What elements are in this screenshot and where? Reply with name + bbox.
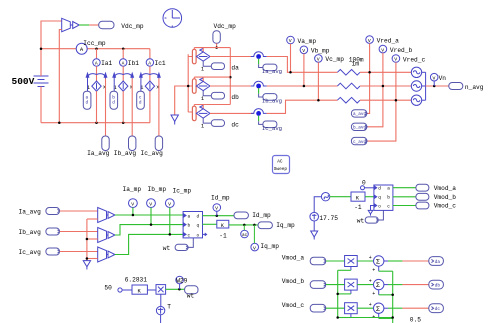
svg-text:V: V — [381, 47, 384, 53]
svg-text:Icc_mp: Icc_mp — [83, 40, 106, 47]
svg-text:Ia_avg: Ia_avg — [262, 68, 282, 75]
resistor Rc — [337, 97, 360, 103]
svg-text:Vmod_c: Vmod_c — [282, 302, 305, 309]
wire Vc_mp — [317, 62, 319, 100]
resistor Rb — [337, 83, 360, 89]
svg-text:A: A — [122, 61, 125, 67]
current source Ic_avg — [251, 109, 267, 116]
svg-text:da: da — [231, 65, 239, 72]
node ac tap — [243, 224, 246, 227]
source diamond dc — [196, 105, 210, 118]
svg-text:a_avg: a_avg — [353, 112, 367, 117]
converter block Ib_avg — [98, 228, 115, 243]
from tag Ic_avg — [46, 248, 60, 255]
svg-text:V: V — [131, 201, 134, 207]
wire U2 out Vmod_c — [393, 205, 416, 207]
svg-text:V: V — [289, 38, 292, 44]
wire source to neutral a — [422, 71, 426, 73]
svg-text:Ib_avg: Ib_avg — [114, 150, 137, 157]
wire green probe Ia_avg — [258, 59, 260, 65]
voltmeter Vred_b — [379, 45, 387, 53]
wire Ic_avg to converter — [60, 251, 98, 253]
wire mult lower input db — [338, 290, 351, 294]
sum db — [374, 279, 384, 290]
from tag Vmod_c — [310, 304, 326, 312]
voltmeter Vn — [430, 73, 438, 86]
node Vred_c — [395, 99, 398, 102]
goto tag n_avg — [449, 83, 463, 90]
gain K1 — [217, 220, 229, 229]
svg-text:Ib_avg: Ib_avg — [262, 98, 282, 105]
constant 50 port — [118, 288, 132, 292]
wire sum lower input db — [379, 290, 393, 295]
multiplier M1 — [156, 285, 166, 295]
converter block Ia_avg — [98, 208, 115, 223]
svg-text:dc: dc — [231, 122, 239, 129]
gain K2 — [351, 192, 365, 202]
svg-text:Vmod_a: Vmod_a — [282, 255, 305, 262]
svg-text:17.75: 17.75 — [319, 215, 338, 222]
wire d output — [203, 215, 235, 217]
current source Ib_avg — [251, 81, 267, 88]
node Vdc tap — [215, 46, 218, 49]
svg-text:n_avg: n_avg — [465, 84, 484, 91]
wire DC+ top — [41, 21, 62, 76]
node return col a — [95, 121, 98, 124]
node Ia_mp — [132, 214, 135, 217]
svg-text:q: q — [197, 224, 200, 229]
wire filter to source a — [360, 71, 411, 73]
goto tag Vmod_c — [416, 202, 429, 209]
port letters U1 — [188, 215, 200, 239]
svg-text:W29: W29 — [176, 278, 187, 285]
svg-text:Id_mp: Id_mp — [252, 212, 271, 219]
wire multiplier to return bus Ib1 — [122, 91, 124, 123]
wire U2 out Vmod_a — [393, 187, 416, 189]
wire to ground — [175, 86, 189, 115]
wire arrow to duty tag db — [113, 79, 115, 92]
svg-text:da: da — [435, 260, 441, 265]
wire mult to sum db — [357, 284, 373, 286]
svg-text:ac: ac — [242, 233, 248, 238]
from tag duty da — [83, 91, 91, 109]
wire Vmod_a to mult — [326, 260, 345, 262]
sum dc — [374, 303, 384, 314]
from tag Vdc_mp — [213, 31, 220, 44]
block AC sweep — [273, 156, 290, 174]
multiplier source Ia1 — [92, 81, 101, 91]
from tag Ib_avg — [263, 94, 277, 101]
svg-text:Ic1: Ic1 — [155, 60, 166, 67]
svg-text:0.5: 0.5 — [410, 316, 421, 323]
goto tag Id_mp — [234, 212, 248, 219]
svg-text:Σ: Σ — [376, 306, 380, 314]
svg-text:c: c — [387, 204, 390, 209]
svg-text:Ib1: Ib1 — [128, 60, 139, 67]
wire to Ib_avg tag — [131, 79, 133, 137]
wire converter lower input Ia_avg — [87, 218, 98, 220]
svg-text:V: V — [168, 201, 171, 207]
ac source block — [241, 225, 249, 238]
wire tag link Ia_avg — [259, 64, 263, 67]
svg-text:Ia_avg: Ia_avg — [19, 209, 42, 216]
voltmeter Ia_mp — [129, 199, 138, 208]
ammeter Ic1 — [146, 59, 153, 67]
wire bus to ammeter Ia1 — [96, 49, 98, 59]
svg-text:Vc_mp: Vc_mp — [325, 56, 344, 63]
ground — [311, 231, 318, 240]
wire source to perturbation — [314, 197, 321, 213]
source diamond db — [196, 78, 210, 91]
wire diamond to from tag dc — [203, 118, 211, 123]
transform dq-abc U2 — [374, 185, 393, 210]
svg-text:wt: wt — [163, 245, 171, 252]
bar terminal dc — [192, 106, 196, 121]
source diamond da — [196, 49, 210, 62]
wire mult lower input da — [338, 267, 351, 271]
sum da — [374, 256, 384, 267]
voltmeter Vdc probe — [62, 18, 79, 31]
goto tag Vmod_b — [416, 193, 429, 200]
voltmeter W29 — [176, 276, 184, 289]
svg-text:V: V — [317, 57, 320, 63]
svg-text:wt: wt — [187, 292, 195, 299]
wire bus to ammeter Ic1 — [149, 49, 151, 59]
svg-text:V: V — [253, 245, 256, 251]
wire wt to U1 — [188, 238, 193, 248]
converter block Ic_avg — [98, 247, 115, 262]
wire probe to DC- — [59, 30, 61, 123]
svg-text:K: K — [221, 223, 224, 229]
wire Va_mp — [290, 44, 292, 73]
wire Ib_mp tap — [150, 208, 152, 225]
node W29 tap — [178, 288, 181, 291]
wire to Ic_avg tag — [158, 79, 160, 137]
svg-text:V: V — [394, 57, 397, 63]
wire ammeter to multiplier Ia1 — [96, 66, 98, 81]
multiplier source Ic1 — [145, 81, 154, 91]
wire bus to ammeter Ib1 — [122, 49, 124, 59]
multiplier db — [345, 279, 358, 290]
svg-text:A: A — [148, 61, 151, 67]
svg-text:Ib_avg: Ib_avg — [19, 229, 42, 236]
svg-text:d: d — [112, 101, 115, 106]
wire below T — [160, 315, 162, 323]
wire Ic_mp tap — [169, 208, 171, 235]
ac source Va — [411, 67, 421, 77]
from tag c_avg — [351, 137, 367, 145]
svg-text:db: db — [231, 94, 239, 101]
wire multiplier to return bus Ic1 — [149, 91, 151, 123]
node bus col a — [95, 47, 98, 50]
svg-text:o: o — [378, 204, 381, 209]
node leg bus ground — [187, 85, 190, 88]
svg-text:V: V — [433, 75, 436, 81]
goto tag wt — [185, 286, 198, 294]
goto tag db — [429, 280, 444, 289]
wire mult to sum da — [357, 260, 373, 262]
from tag duty db — [110, 91, 118, 109]
gain K3 — [132, 285, 147, 295]
wire tag link Ic_avg — [259, 121, 263, 124]
wire mult to sum dc — [357, 307, 373, 309]
from tag a_avg — [351, 110, 367, 118]
wire mult to time — [160, 294, 162, 306]
wire neutral out — [426, 85, 449, 87]
wire diamond to from tag db — [203, 91, 211, 96]
voltmeter Iq_mp — [251, 225, 259, 251]
wire Vred_c — [367, 62, 396, 141]
wire diamond to probe da — [210, 56, 254, 58]
wire K2 to U2 q — [365, 196, 374, 198]
from tag duty dc — [137, 91, 145, 109]
node left bus c — [336, 316, 339, 319]
current arrows Ia1 — [86, 73, 107, 78]
ground — [83, 261, 90, 270]
wire green probe Ib_avg — [258, 88, 260, 94]
svg-text:Vdc_mp: Vdc_mp — [214, 23, 237, 30]
svg-text:d: d — [378, 187, 381, 192]
transform abc-dq U1 — [183, 212, 202, 238]
svg-text:Ia_mp: Ia_mp — [123, 186, 142, 193]
wire source to ground — [313, 221, 315, 231]
svg-text:+: + — [369, 255, 372, 261]
svg-text:T: T — [167, 304, 171, 311]
wire source to neutral b — [422, 85, 426, 87]
svg-text:0: 0 — [362, 179, 366, 186]
svg-text:Ic_avg: Ic_avg — [262, 125, 282, 132]
wire row c to filter — [267, 100, 338, 113]
node left bus b — [336, 293, 339, 296]
wire green probe Ic_avg — [258, 116, 260, 122]
node return col b — [122, 121, 125, 124]
svg-text:-1: -1 — [219, 233, 227, 240]
wire green phase c — [115, 234, 183, 254]
ac source Vc — [411, 95, 421, 105]
svg-text:Ia_avg: Ia_avg — [87, 150, 110, 157]
wire row b to filter — [267, 85, 338, 87]
voltmeter Vred_c — [392, 55, 400, 63]
svg-text:b_avg: b_avg — [353, 126, 367, 131]
svg-text:d: d — [197, 215, 200, 220]
wire converter lower input Ib_avg — [87, 238, 98, 240]
wire U2 out Vmod_b — [393, 196, 416, 198]
wire filter to source b — [360, 85, 411, 87]
voltmeter Va_mp — [287, 36, 295, 44]
voltmeter Vb_mp — [300, 46, 308, 54]
node Vb_mp — [303, 85, 306, 88]
goto tag Vmod_a — [416, 184, 429, 191]
wire multiplier to return bus Ia1 — [96, 91, 98, 123]
wire leg right bus — [229, 48, 231, 105]
node Vn tap — [433, 85, 436, 88]
from tag wt2 — [365, 217, 378, 223]
svg-text:500V: 500V — [12, 76, 35, 87]
wire sum out db — [384, 284, 429, 286]
wire green phase a — [115, 214, 183, 216]
goto tag Ic_avg — [155, 136, 162, 151]
dc source 17.75 — [310, 212, 319, 221]
svg-text:Vmod_b: Vmod_b — [434, 194, 457, 201]
wire neutral bus — [425, 72, 427, 100]
svg-text:+: + — [369, 278, 372, 284]
goto tag da — [429, 257, 444, 266]
svg-text:Σ: Σ — [376, 282, 380, 290]
wire row a to filter — [267, 57, 338, 73]
node Ic_mp — [169, 233, 172, 236]
wire right 0.5 bus — [392, 271, 394, 323]
svg-text:Ic_avg: Ic_avg — [141, 150, 164, 157]
from tag da — [211, 63, 224, 70]
wire mult to wt tag — [166, 288, 185, 290]
node return Vdc probe — [58, 121, 61, 124]
port o arrow — [203, 233, 207, 236]
svg-text:Va_mp: Va_mp — [298, 38, 317, 45]
port letters U2 — [378, 187, 390, 210]
wire green Vdc signal — [79, 24, 89, 26]
ammeter Ib1 — [120, 59, 127, 67]
clock — [163, 9, 182, 28]
svg-text:Vmod_b: Vmod_b — [282, 278, 305, 285]
svg-text:Vmod_c: Vmod_c — [434, 203, 457, 210]
wire sum out da — [384, 260, 429, 262]
svg-text:Vb_mp: Vb_mp — [311, 48, 330, 55]
wire Vmod_b to mult — [326, 284, 345, 286]
ac source Vb — [411, 81, 421, 91]
svg-text:+: + — [372, 267, 375, 273]
wire converter lower input Ic_avg — [87, 258, 98, 260]
node Vc_mp — [317, 99, 320, 102]
svg-text:V: V — [302, 48, 305, 54]
svg-text:Σ: Σ — [376, 259, 380, 267]
current source Ia_avg — [251, 52, 267, 59]
wire filter to source c — [360, 99, 411, 101]
wire Ia_mp tap — [132, 208, 134, 216]
from tag Ia_avg — [46, 208, 60, 215]
svg-text:AC: AC — [277, 160, 283, 165]
svg-text:Vn: Vn — [439, 75, 447, 82]
wire to gain K2 — [330, 196, 351, 198]
ammeter Ia1 — [93, 59, 100, 67]
svg-text:a: a — [387, 187, 390, 192]
goto tag Iq_mp — [258, 222, 272, 229]
svg-text:q: q — [378, 196, 381, 201]
wire leg top db — [194, 77, 230, 81]
wire K3 to mult — [147, 289, 156, 291]
svg-text:Vdc_mp: Vdc_mp — [121, 23, 144, 30]
svg-text:Vred_c: Vred_c — [403, 56, 426, 63]
from tag b_avg — [351, 123, 367, 131]
wire ammeter to multiplier Ib1 — [122, 66, 124, 81]
current arrows Ic1 — [140, 73, 161, 78]
wire leg top da — [194, 48, 230, 52]
resistor Ra — [337, 70, 360, 76]
wire DC- return bus — [41, 122, 150, 124]
from tag Ib_avg — [46, 228, 60, 235]
wire Vb_mp — [303, 54, 305, 86]
wire arrow to duty tag dc — [140, 79, 142, 92]
voltmeter Vc_mp — [315, 55, 323, 63]
wire leg left bus — [188, 54, 192, 112]
wire ammeter to multiplier Ic1 — [149, 66, 151, 81]
node Va_mp — [289, 71, 292, 74]
svg-text:V: V — [215, 206, 218, 212]
wire Ib_avg to converter — [60, 231, 98, 233]
ground small — [368, 210, 373, 215]
dc source V500 — [34, 76, 49, 87]
node right bus bottom — [391, 316, 394, 319]
svg-text:a: a — [188, 215, 191, 220]
voltmeter Vred_a — [366, 36, 374, 44]
svg-text:c_avg: c_avg — [353, 140, 367, 145]
wire q output — [203, 223, 217, 225]
node Vred_b — [382, 85, 385, 88]
bar terminal db — [192, 79, 196, 94]
node leg right bus — [229, 76, 232, 79]
goto tag Ia_avg — [102, 136, 109, 151]
from tag wt — [175, 244, 188, 250]
wire source to neutral c — [422, 99, 426, 101]
wire wt to U2 — [378, 210, 383, 220]
svg-text:c: c — [188, 233, 191, 238]
from tag dc — [211, 120, 224, 127]
svg-text:Ib_mp: Ib_mp — [148, 186, 167, 193]
wire diamond to probe db — [210, 85, 254, 87]
svg-text:Vred_a: Vred_a — [377, 37, 400, 44]
svg-text:Vred_b: Vred_b — [390, 47, 413, 54]
svg-text:+: + — [372, 291, 375, 297]
svg-text:db: db — [435, 284, 441, 289]
wire sum lower input da — [379, 266, 393, 271]
ground — [171, 115, 178, 125]
node Iq tap — [253, 224, 256, 227]
from tag Vmod_b — [310, 281, 326, 289]
wire leg top dc — [194, 105, 230, 109]
svg-text:Ic_mp: Ic_mp — [173, 187, 192, 194]
constant 0 — [361, 186, 374, 190]
voltmeter Ic_mp — [165, 199, 174, 208]
node Vred_a — [368, 71, 371, 74]
bar terminal da — [192, 49, 196, 64]
from tag Vmod_a — [310, 257, 326, 265]
svg-text:A: A — [95, 61, 98, 67]
svg-text:d: d — [139, 101, 142, 106]
from tag db — [211, 92, 224, 99]
svg-text:50: 50 — [104, 285, 112, 292]
svg-text:+: + — [369, 302, 372, 308]
svg-text:Vmod_a: Vmod_a — [434, 185, 457, 192]
wire sum out dc — [384, 307, 429, 309]
wire Vmod_c to mult — [326, 307, 345, 309]
node battery-bus — [40, 47, 43, 50]
wire converter ground bus — [86, 219, 88, 261]
svg-text:Ic_avg: Ic_avg — [19, 249, 42, 256]
svg-text:V: V — [149, 201, 152, 207]
wire left 0.5 bus — [338, 270, 393, 317]
node Ib_mp — [150, 223, 153, 226]
svg-text:wt: wt — [357, 218, 365, 225]
node gnd bus c — [86, 257, 89, 260]
svg-text:o: o — [197, 233, 200, 238]
wire o port stub — [371, 206, 374, 211]
time source T — [156, 306, 164, 314]
svg-text:-1: -1 — [354, 204, 362, 211]
goto tag Ib_avg — [129, 136, 136, 151]
svg-text:Ia1: Ia1 — [101, 60, 112, 67]
node bus col b — [122, 47, 125, 50]
svg-text:dc: dc — [435, 307, 441, 312]
current arrows Ib1 — [113, 73, 134, 78]
